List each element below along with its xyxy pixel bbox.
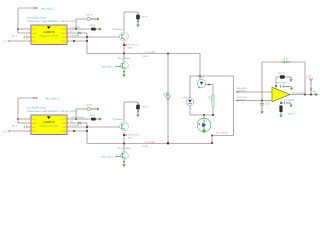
svg-text:Unk_Abd_1: Unk_Abd_1: [101, 66, 115, 69]
svg-text:GND: GND: [32, 32, 37, 35]
wire input bus corner net VIN_1: [18, 7, 35, 9]
junction return b: [211, 142, 213, 144]
transistor A_Sat circle: [199, 76, 201, 79]
wire U1 pin VIN: [18, 28, 28, 30]
ground right of C_vcc: [289, 79, 292, 82]
inductor L10: [91, 28, 96, 31]
junction row4 b: [86, 130, 88, 132]
svg-text:zVI: zVI: [70, 120, 73, 123]
junction row4 a: [73, 130, 75, 132]
ferrite bead FB2: [77, 122, 79, 125]
svg-text:4 Rot: 4 Rot: [163, 92, 166, 97]
svg-text:TxBead 0.8uH + Bulk 100uF/25V: TxBead 0.8uH + Bulk 100uF/25V + X7R 1uF …: [27, 110, 77, 113]
wire SNS row U1: [70, 32, 76, 34]
svg-text:4R7 N: 4R7 N: [142, 106, 149, 109]
capacitor C_in to ground: [261, 101, 263, 103]
svg-text:VIN: VIN: [32, 118, 36, 121]
U2 left pin stubs: [29, 118, 31, 120]
wire Tin emitter 1: [123, 70, 125, 73]
svg-text:LM2576: LM2576: [44, 121, 56, 124]
section 2 bottom regulator channel: [3, 97, 212, 167]
terminal FB input tick: [9, 40, 11, 42]
junction cross FB 2: [167, 143, 169, 145]
wire FB net horizontal L1: [87, 53, 200, 55]
svg-text:4.7uF: 4.7uF: [264, 100, 267, 106]
transistor Q2 phase: [120, 122, 129, 131]
U1 right pin stubs: [67, 28, 69, 30]
wire CB branch horizontal: [76, 108, 87, 110]
svg-text:T_SW: T_SW: [181, 96, 188, 99]
svg-text:Tr (phase): Tr (phase): [112, 28, 123, 31]
component R_b right: [282, 102, 283, 104]
junction feedback tap: [304, 94, 306, 96]
terminal ON pin input: [23, 126, 25, 129]
junction block pin1 feed U1: [17, 28, 19, 30]
svg-text:a_1: a_1: [3, 40, 8, 43]
wire OUT row U2: [70, 118, 91, 120]
regulator module U1 LM2576: [31, 25, 67, 45]
wire A_Sat right lead: [206, 84, 213, 86]
wire R_sense bottom: [212, 107, 214, 115]
terminal VIN_1: [36, 7, 38, 9]
wire right drop x233: [233, 76, 235, 136]
svg-text:ON: ON: [32, 126, 36, 129]
svg-text:VIN 500 (obd): VIN 500 (obd): [71, 116, 85, 119]
svg-text:100 TF: 100 TF: [278, 72, 287, 75]
svg-text:UNK_ABDL_2: UNK_ABDL_2: [45, 98, 59, 101]
junction row3 vertical: [86, 36, 88, 38]
junction block pin1 feed U2: [17, 118, 19, 120]
svg-text:40.9 lb: 40.9 lb: [237, 87, 247, 90]
ground below C_b: [279, 115, 282, 118]
svg-text:A_Sat: A_Sat: [198, 76, 204, 79]
voltage probe V_M: [310, 78, 313, 81]
junction FB bus bottom: [167, 142, 169, 144]
terminal CB arrow: [97, 107, 100, 110]
svg-text:CB 2a: CB 2a: [86, 104, 93, 107]
ground below C_in: [260, 111, 263, 114]
transistor Q1 phase: [120, 32, 129, 41]
svg-text:zVI: zVI: [70, 30, 73, 33]
arrow A_load bottom: [202, 130, 206, 134]
wire FB net horizontal L2: [87, 143, 212, 145]
junction Vout_1: [123, 44, 125, 46]
wire GND row U1: [70, 40, 87, 42]
svg-text:p (kVA)a: p (kVA)a: [70, 124, 81, 127]
wire Tin emitter 2: [123, 160, 125, 163]
feedback wire: [304, 62, 306, 95]
wire SNS row U2: [70, 122, 76, 124]
wire emitter Q1: [123, 42, 125, 54]
wire OUT row U1: [70, 28, 91, 30]
svg-text:90 TF: 90 TF: [283, 58, 289, 61]
ground below Tin 2: [122, 164, 125, 167]
resistor R_sense vertical: [212, 95, 214, 107]
wire y76 horizontal: [190, 75, 234, 77]
wire C_vcc right corner: [290, 77, 292, 79]
wire return stub: [211, 136, 213, 144]
wire emitter Q2: [123, 132, 125, 144]
junction inverting node: [261, 100, 263, 102]
svg-text:Unk_Abd_2: Unk_Abd_2: [101, 156, 115, 159]
wire input bus corner net VIN_2: [18, 97, 35, 99]
terminal output Pb: [315, 93, 318, 96]
wire CB branch horizontal: [76, 18, 87, 20]
svg-text:GND: GND: [61, 40, 66, 43]
svg-text:Regulator module: Regulator module: [40, 125, 60, 128]
wire CB branch vertical: [75, 19, 77, 29]
wire collector Q1: [123, 12, 125, 31]
ferrite bead FB1: [77, 32, 79, 35]
terminal OUT arrow: [99, 117, 102, 120]
svg-text:(102.4): (102.4): [237, 98, 245, 101]
opamp output wire: [290, 94, 317, 96]
svg-text:use LM2576_Tbead: use LM2576_Tbead: [27, 107, 47, 110]
capacitor C_vcc blob: [280, 75, 285, 78]
junction row3 vertical: [86, 126, 88, 128]
LED T_SW: [186, 98, 194, 106]
junction cross FB 1: [167, 53, 169, 55]
terminal FB input tick: [9, 130, 11, 132]
U1 left pin stubs: [29, 28, 31, 30]
svg-text:VIN: VIN: [32, 28, 36, 31]
svg-text:SW: SW: [62, 126, 65, 129]
terminal VIN_2: [36, 97, 38, 99]
svg-text:OUT: OUT: [61, 28, 66, 31]
svg-text:A_load: A_load: [216, 131, 229, 134]
svg-text:(40.9k): (40.9k): [237, 90, 245, 93]
svg-text:Tr (phase): Tr (phase): [112, 118, 123, 121]
ground below D1: [136, 24, 139, 27]
fuse F_chk on FB bus: [166, 94, 170, 98]
inductor L20: [91, 118, 96, 121]
svg-text:(4R): (4R): [165, 92, 168, 96]
wire SW row U1 to transistor base: [70, 36, 120, 38]
svg-text:SNS: SNS: [62, 122, 67, 125]
svg-text:(0.05): (0.05): [143, 145, 149, 148]
svg-text:IN_1: IN_1: [12, 34, 18, 37]
svg-text:px (obd): px (obd): [71, 26, 80, 29]
opamp input wire inverting: [236, 91, 272, 93]
junction rail load: [203, 114, 205, 116]
svg-text:CB 1a: CB 1a: [86, 14, 93, 17]
svg-text:V_M: V_M: [306, 75, 311, 78]
svg-text:(0.05): (0.05): [143, 55, 149, 58]
svg-text:ON: ON: [32, 36, 36, 39]
junction Vout_2: [123, 134, 125, 136]
svg-text:use LM2576_Tbead: use LM2576_Tbead: [27, 17, 47, 20]
wire FB bus vertical cross-link: [167, 54, 169, 144]
svg-text:p (kVA)a: p (kVA)a: [70, 34, 81, 37]
opamp V+ pin wire: [275, 77, 277, 88]
junction probe tap: [310, 94, 312, 96]
wire rail y115: [190, 114, 213, 116]
wire U2 pin GND left: [18, 122, 28, 124]
wire U2 pin VIN: [18, 118, 28, 120]
svg-text:(0V): (0V): [128, 46, 132, 49]
wire FB input: [10, 130, 28, 132]
feedback component Cf: [283, 61, 285, 64]
svg-text:OUT: OUT: [61, 118, 66, 121]
wire LED to rail: [189, 105, 191, 115]
svg-text:(0V): (0V): [128, 136, 132, 139]
wire row2 to corner: [81, 122, 87, 124]
svg-text:Vout_1: Vout_1: [128, 43, 140, 46]
svg-text:UNK_ABDL_1: UNK_ABDL_1: [41, 8, 55, 11]
ground R_vcc: [290, 88, 293, 91]
section 1 top regulator channel: [3, 7, 200, 77]
capacitor C_b down: [279, 105, 282, 112]
svg-text:a_2: a_2: [3, 130, 8, 133]
svg-text:SNS: SNS: [62, 32, 67, 35]
wire to Tin 2: [123, 144, 125, 152]
wire LED branch vertical: [189, 76, 191, 98]
svg-text:AT 100Ω: AT 100Ω: [284, 99, 295, 102]
junction row4 b: [86, 40, 88, 42]
svg-text:L2 (FB): L2 (FB): [145, 141, 156, 144]
terminal Tin base 2: [116, 156, 118, 158]
junction A_Sat lead: [208, 84, 209, 85]
svg-text:TxBead 0.8uH + Bulk 100uF/25V: TxBead 0.8uH + Bulk 100uF/25V + X7R 1uF …: [27, 20, 77, 23]
junction emitter FB 2: [123, 143, 125, 145]
junction rail sense: [212, 114, 214, 116]
junction node 200-76: [199, 75, 201, 77]
svg-text:U10 B: U10 B: [89, 114, 96, 117]
svg-text:(0.5): (0.5): [210, 96, 213, 101]
opamp input wire non-inverting: [236, 100, 272, 102]
svg-text:U10 B: U10 B: [89, 24, 96, 27]
diode D1: [137, 12, 139, 15]
wire row2 to corner: [81, 32, 87, 34]
terminal CB arrow: [97, 17, 100, 20]
svg-text:L1 (FB): L1 (FB): [145, 51, 156, 54]
terminal OUT arrow: [99, 27, 102, 30]
wire to Tin 1: [123, 54, 125, 62]
wire y135 return: [212, 135, 234, 137]
wire FB input: [10, 40, 28, 42]
junction return a: [211, 135, 213, 137]
svg-text:Vdd TF: Vdd TF: [288, 113, 297, 116]
ground below D2: [136, 114, 139, 117]
component R_vcc: [280, 85, 282, 88]
diode D2: [137, 102, 139, 105]
svg-text:GND: GND: [32, 122, 37, 125]
regulator module U2 LM2576: [31, 115, 67, 135]
terminal ON pin input: [23, 36, 25, 39]
U2 right pin stubs: [67, 118, 69, 120]
junction V+ branch: [275, 85, 277, 87]
wire node corner x200 down: [199, 54, 201, 77]
transistor Tin1: [121, 62, 129, 70]
transistor Tin2: [121, 152, 129, 160]
breaker CB 2a: [87, 107, 90, 110]
svg-text:Regulator module: Regulator module: [40, 35, 60, 38]
svg-text:IN_2: IN_2: [12, 124, 18, 127]
op-amp U3 triangle: [272, 87, 290, 101]
svg-text:LM2576: LM2576: [44, 31, 56, 34]
wire U1 pin GND left: [18, 32, 28, 34]
opamp bottom pin: [280, 101, 282, 103]
svg-text:(4u7): (4u7): [267, 100, 270, 105]
ground right branch: [289, 105, 292, 108]
junction row4 a: [73, 40, 75, 42]
svg-text:SW: SW: [62, 36, 65, 39]
svg-text:GND: GND: [61, 130, 66, 133]
breaker CB 1a: [87, 17, 90, 20]
current probe A_load: [203, 115, 205, 118]
terminal Tin base 1: [116, 66, 118, 68]
wire SW row U2 to transistor base: [70, 126, 120, 128]
wire CB branch vertical: [75, 109, 77, 119]
svg-text:(CTR 100): (CTR 100): [276, 82, 286, 85]
junction bottom node: [280, 102, 282, 104]
junction emitter FB 1: [123, 53, 125, 55]
svg-text:Vout_2: Vout_2: [128, 133, 140, 136]
wire GND row U2: [70, 130, 87, 132]
ground below Tin 1: [122, 74, 125, 77]
wire collector Q2: [123, 102, 125, 121]
svg-text:4R7 N: 4R7 N: [142, 16, 149, 19]
